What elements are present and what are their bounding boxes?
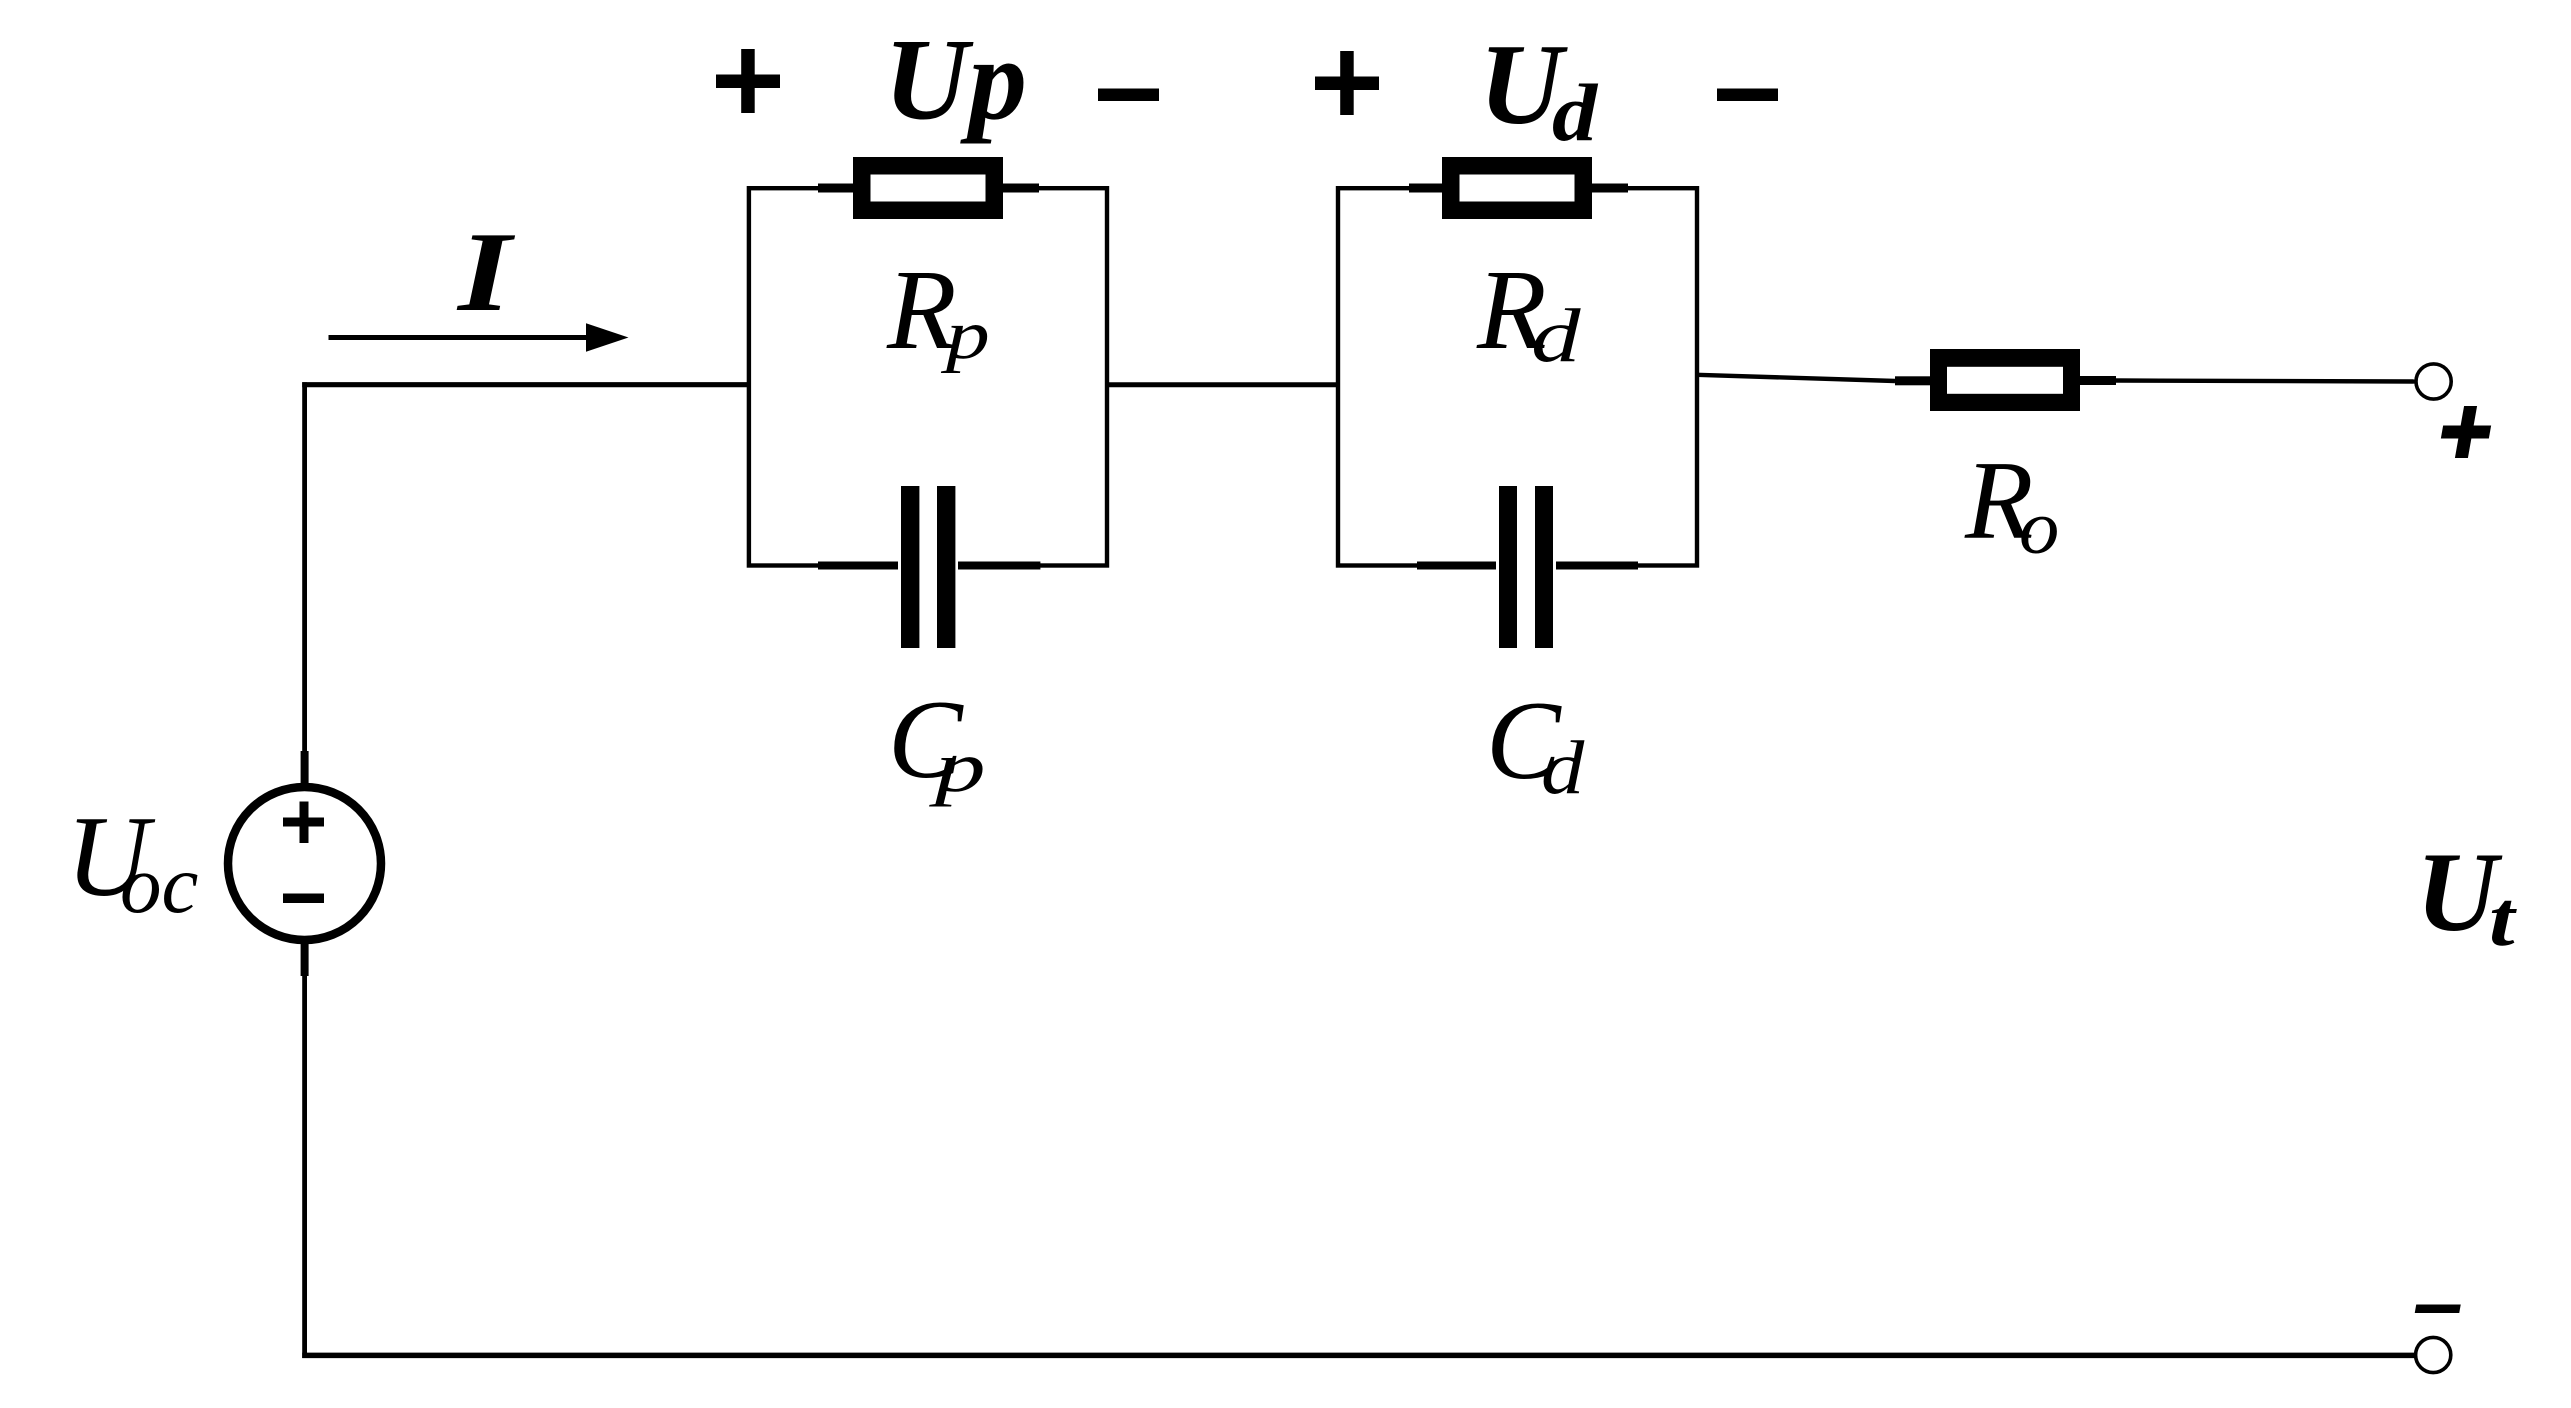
wire: source bottom to bottom-left corner [302, 974, 307, 1358]
label Cd [1486, 679, 1586, 810]
svg-text:d: d [1531, 294, 1581, 379]
label Rd [1476, 246, 1581, 378]
label + (terminal) [2437, 406, 2494, 458]
wire: between RC block 1 and RC block 2 [1107, 382, 1338, 387]
node: positive output terminal [2416, 364, 2451, 399]
svg-text:p: p [928, 728, 986, 807]
label I (current) [456, 210, 516, 336]
label - (Up polarity) [1098, 89, 1159, 102]
capacitor Cp [818, 486, 1040, 648]
label + (Up polarity) [716, 49, 780, 113]
label Ut [2416, 830, 2517, 962]
label Up [884, 16, 1027, 145]
capacitor Cd [1417, 486, 1638, 648]
svg-text:t: t [2489, 876, 2517, 962]
svg-text:oc: oc [120, 838, 198, 930]
resistor Rp [818, 157, 1039, 219]
node: RC block 2 frame [1338, 188, 1697, 565]
voltage source Uoc [228, 751, 381, 976]
node: RC block 1 frame [749, 188, 1107, 565]
svg-text:p: p [940, 296, 989, 374]
label Ud [1479, 21, 1599, 158]
svg-text:d: d [1541, 725, 1586, 810]
resistor Rd [1409, 157, 1628, 219]
wire: bottom return wire to negative terminal [302, 1353, 2415, 1359]
svg-text:o: o [2019, 485, 2059, 569]
label + (Ud polarity) [1315, 51, 1379, 115]
svg-text:Up: Up [884, 16, 1027, 145]
label - (terminal) [2415, 1305, 2461, 1314]
label Cp [888, 678, 986, 807]
label Ro [1964, 439, 2059, 569]
label Rp [886, 246, 990, 374]
label Uoc [66, 793, 198, 930]
wire: top main wire from corner to RC block 1 [302, 382, 751, 387]
node: negative output terminal [2416, 1337, 2451, 1372]
svg-text:d: d [1552, 67, 1599, 158]
label - (Ud polarity) [1717, 89, 1778, 102]
current arrow [329, 323, 629, 352]
wire: Ro to positive terminal [2116, 381, 2417, 382]
wire: RC block 2 to Ro [1697, 375, 1895, 381]
svg-text:I: I [456, 210, 516, 336]
wire: left vertical from top-left corner down to source top [302, 382, 307, 753]
resistor Ro [1895, 349, 2116, 411]
